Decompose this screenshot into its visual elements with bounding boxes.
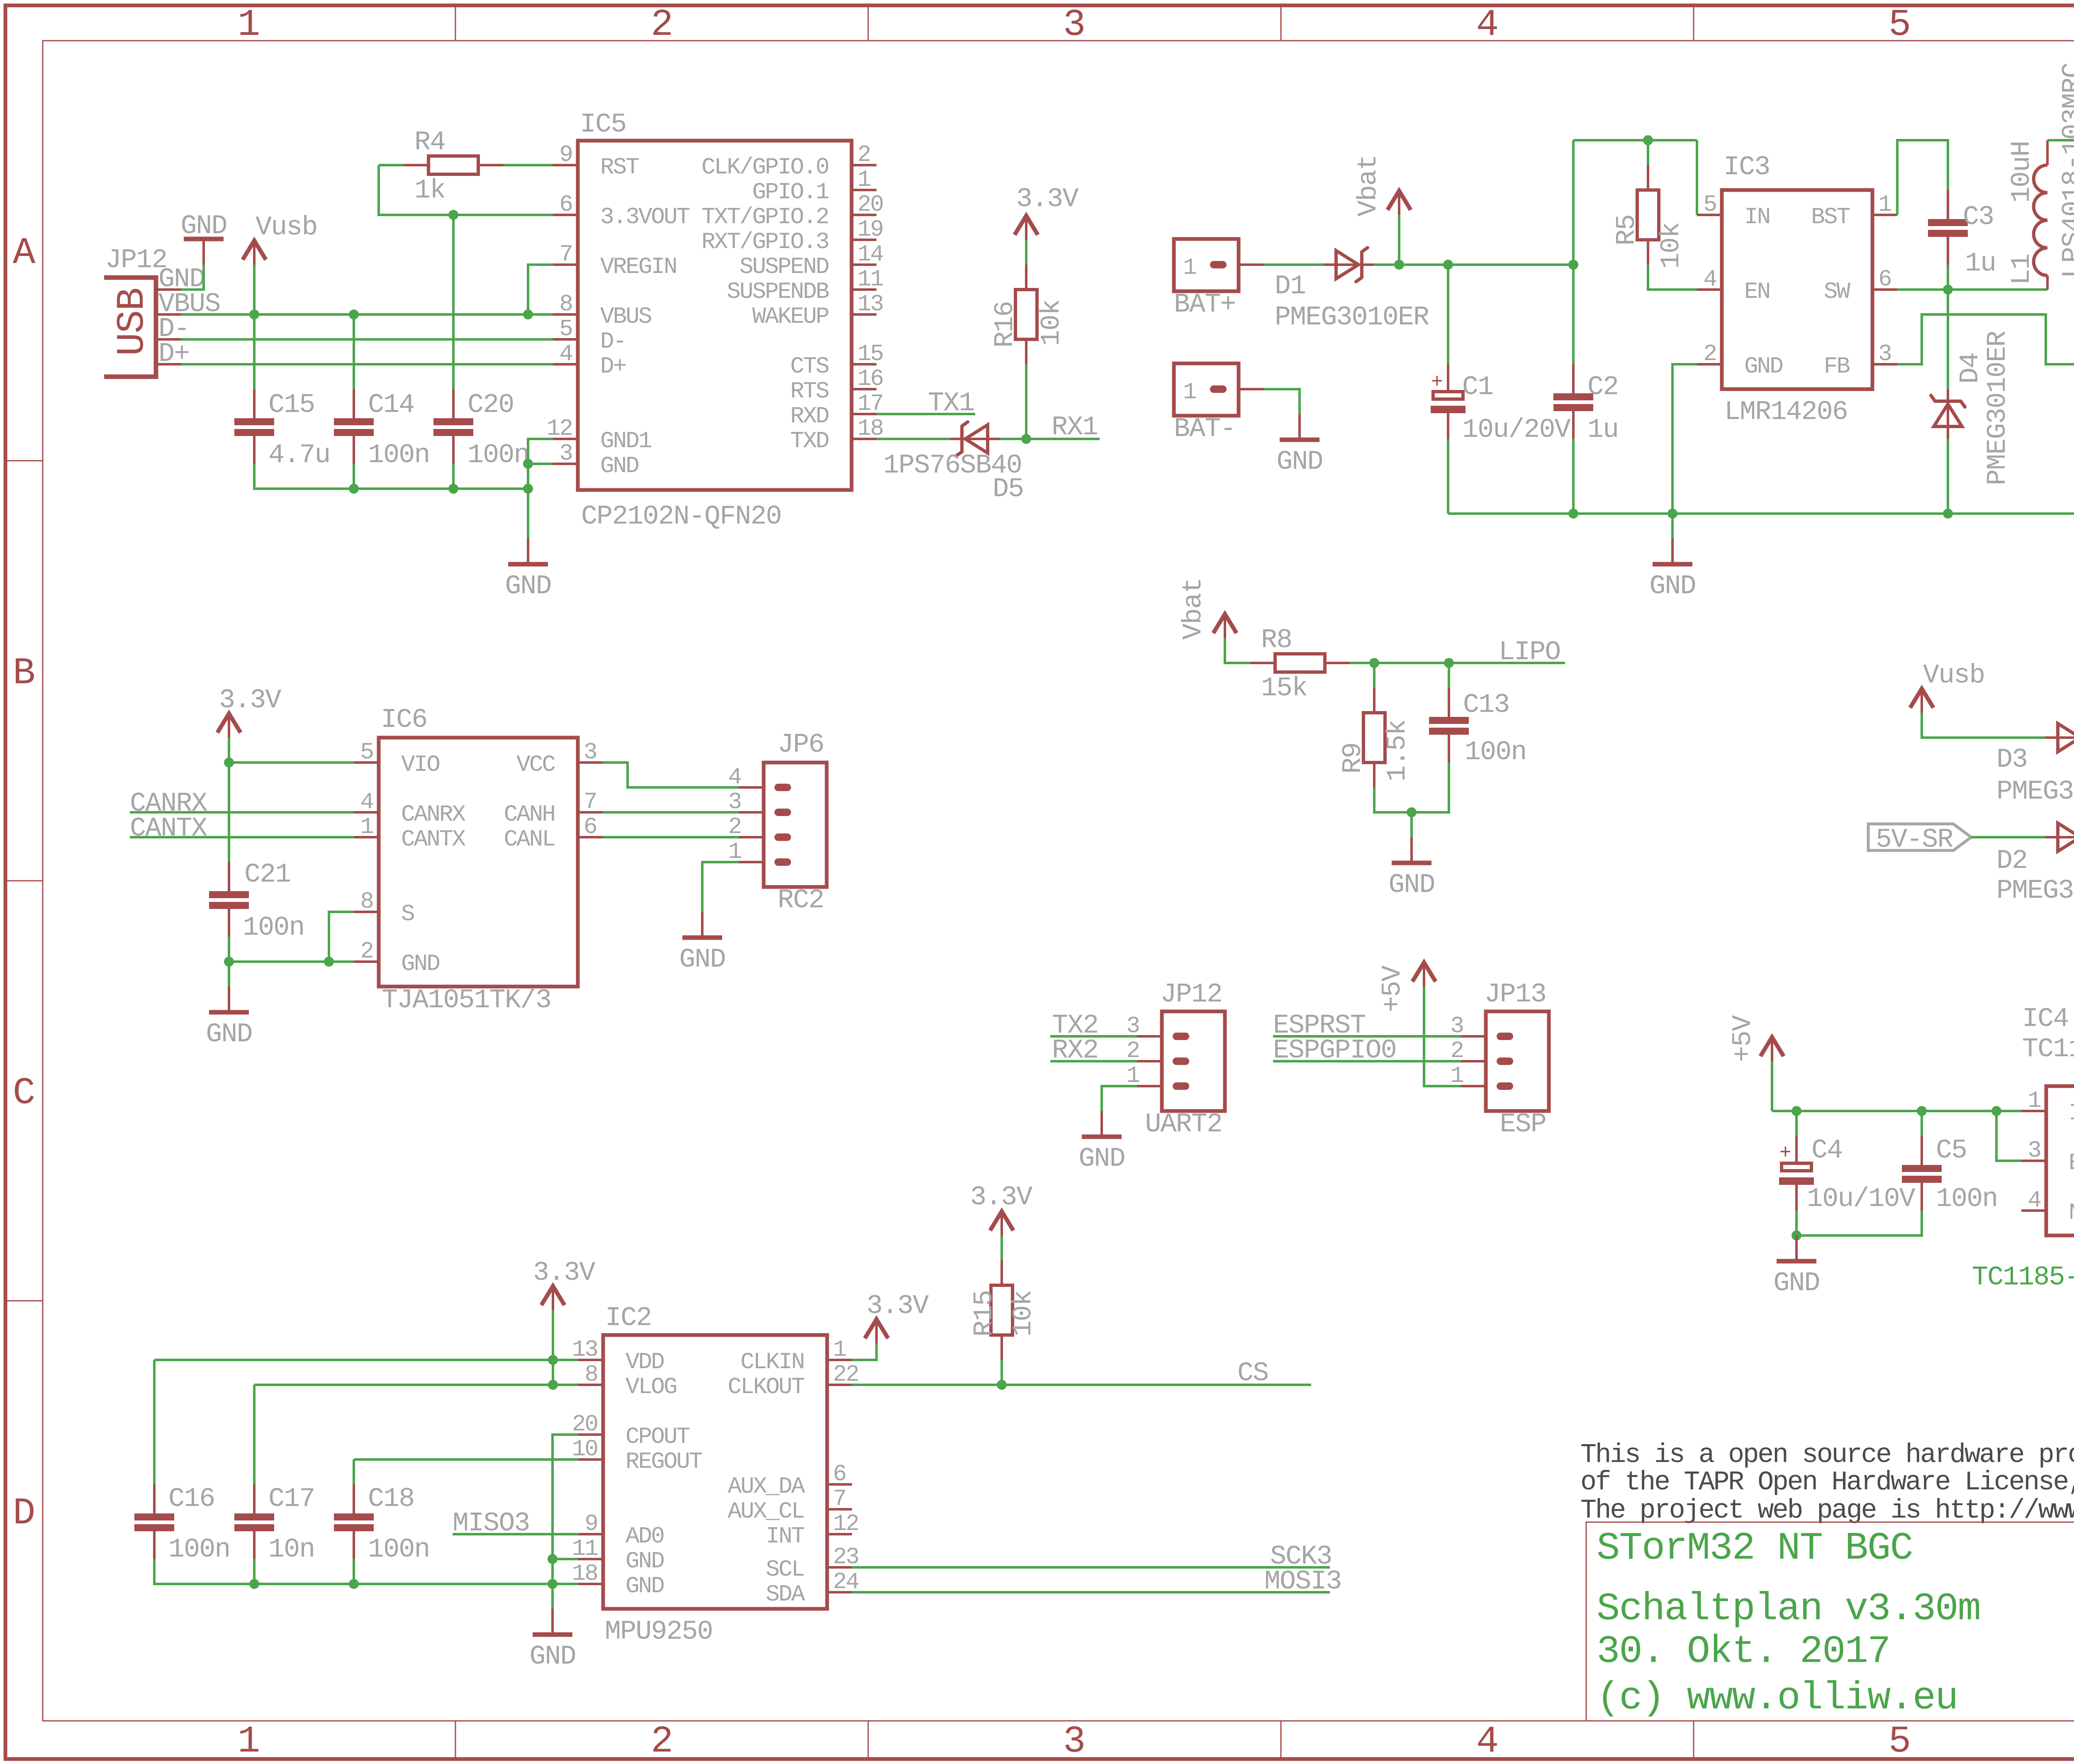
wire GND stem2 bbox=[1410, 812, 1413, 837]
svg-text:2: 2 bbox=[857, 141, 870, 168]
svg-text:TXT/GPIO.2: TXT/GPIO.2 bbox=[701, 204, 828, 230]
pin 8 VBUS of IC5 bbox=[553, 291, 651, 330]
svg-text:Schaltplan v3.30m: Schaltplan v3.30m bbox=[1597, 1587, 1980, 1631]
label D4 name bbox=[1955, 353, 1986, 384]
wire 3.3V vertical bbox=[552, 1310, 554, 1385]
wire C1 down bbox=[1447, 439, 1449, 514]
svg-text:CS: CS bbox=[1237, 1358, 1268, 1389]
svg-text:7: 7 bbox=[833, 1486, 846, 1512]
svg-text:1: 1 bbox=[360, 814, 373, 840]
svg-text:SUSPEND: SUSPEND bbox=[740, 253, 829, 280]
wire ESPRST bbox=[1273, 1035, 1461, 1038]
junction bbox=[1444, 658, 1454, 668]
pin 5 VIO of IC6 bbox=[354, 739, 439, 778]
wire R15 to CS bbox=[1000, 1360, 1003, 1385]
wire FB path bbox=[1897, 314, 2074, 364]
svg-text:1: 1 bbox=[857, 166, 870, 193]
connector JP13 ESP bbox=[1450, 979, 1549, 1140]
svg-text:CLKOUT: CLKOUT bbox=[728, 1374, 804, 1400]
svg-text:11: 11 bbox=[572, 1535, 598, 1562]
svg-text:This is a open source hardware: This is a open source hardware project, … bbox=[1580, 1440, 2074, 1470]
svg-text:Vbat: Vbat bbox=[1353, 155, 1384, 217]
wire VDD rail bbox=[154, 1359, 578, 1361]
wire BAT- to GND bbox=[1263, 389, 1300, 414]
ground bbox=[206, 987, 252, 1050]
wire GND stem bbox=[1671, 514, 1674, 538]
svg-text:CLKIN: CLKIN bbox=[740, 1349, 804, 1375]
svg-text:4: 4 bbox=[1703, 266, 1716, 292]
wire RST to R4 bbox=[503, 164, 553, 166]
svg-text:JP12: JP12 bbox=[1161, 979, 1222, 1010]
notes text bbox=[1580, 1440, 2074, 1526]
svg-text:The project web page is http:/: The project web page is http://www.olliw… bbox=[1580, 1495, 2074, 1526]
svg-text:2: 2 bbox=[651, 4, 674, 46]
pin 20 CPOUT of IC2 bbox=[572, 1411, 690, 1450]
capacitor C16 bbox=[134, 1484, 230, 1565]
supply 3.3V bbox=[970, 1182, 1032, 1235]
pin 3 VCC of IC6 bbox=[516, 739, 603, 778]
wire Vusb to D3 bbox=[1922, 713, 2045, 738]
svg-text:3: 3 bbox=[728, 789, 741, 815]
svg-text:SCL: SCL bbox=[766, 1556, 804, 1583]
svg-text:3.3V: 3.3V bbox=[219, 685, 281, 716]
svg-text:4: 4 bbox=[2028, 1187, 2040, 1213]
svg-text:3: 3 bbox=[1450, 1013, 1463, 1039]
svg-text:1u: 1u bbox=[1965, 248, 1996, 279]
svg-text:IC4: IC4 bbox=[2022, 1004, 2068, 1034]
svg-text:JP13: JP13 bbox=[1485, 979, 1546, 1010]
wire VCC to JP6 bbox=[603, 763, 739, 787]
wire C21 gnd stem bbox=[228, 962, 230, 987]
wire R4 to 3.3VOUT bbox=[379, 165, 553, 215]
svg-text:CPOUT: CPOUT bbox=[626, 1423, 689, 1450]
connector BAT+ bbox=[1174, 239, 1263, 320]
supply Vusb bbox=[1910, 660, 1984, 713]
svg-text:ESPGPIO0: ESPGPIO0 bbox=[1273, 1035, 1396, 1066]
pin 10 REGOUT of IC2 bbox=[572, 1436, 702, 1475]
svg-text:GND: GND bbox=[505, 571, 551, 602]
ground bbox=[1276, 414, 1322, 477]
svg-text:9: 9 bbox=[559, 141, 572, 168]
wire Vbat arrow stem bbox=[1398, 215, 1400, 265]
resistor R8 bbox=[1250, 625, 1350, 704]
pin 12 INT of IC2 bbox=[766, 1511, 858, 1550]
svg-text:VDD: VDD bbox=[626, 1349, 664, 1375]
capacitor C13 bbox=[1429, 688, 1526, 767]
svg-text:CP2102N-QFN20: CP2102N-QFN20 bbox=[581, 501, 781, 532]
pin 8 VLOG of IC2 bbox=[578, 1361, 677, 1400]
supply +5V bbox=[1728, 1015, 1784, 1062]
svg-text:3: 3 bbox=[1878, 341, 1891, 367]
svg-text:WAKEUP: WAKEUP bbox=[752, 303, 828, 330]
wire CLKIN bbox=[852, 1343, 876, 1360]
IC IC4 bbox=[2022, 1004, 2074, 1235]
svg-text:EN: EN bbox=[2069, 1150, 2074, 1176]
junction bbox=[1792, 1230, 1801, 1240]
svg-text:D3: D3 bbox=[1996, 744, 2027, 775]
svg-text:+: + bbox=[1431, 371, 1443, 394]
wire Vbat to R8 bbox=[1225, 638, 1250, 663]
capacitor C2 bbox=[1553, 364, 1618, 445]
pin 7 AUX_CL of IC2 bbox=[728, 1486, 852, 1525]
capacitor C14 bbox=[334, 389, 429, 470]
wire JP6 pin1 GND bbox=[702, 862, 739, 912]
wire VIO bbox=[229, 761, 354, 764]
svg-text:GND: GND bbox=[529, 1641, 575, 1672]
pin 20 TXT/GPIO.2 of IC5 bbox=[701, 191, 883, 230]
IC IC2 bbox=[603, 1303, 827, 1647]
junction bbox=[1407, 807, 1417, 817]
svg-text:4.7u: 4.7u bbox=[268, 440, 330, 470]
svg-text:10k: 10k bbox=[1036, 300, 1067, 346]
junction bbox=[548, 1554, 557, 1564]
svg-text:3: 3 bbox=[1063, 1720, 1086, 1763]
svg-text:GND: GND bbox=[206, 1019, 252, 1050]
junction bbox=[997, 1380, 1007, 1390]
wire CANH to JP6 bbox=[603, 811, 739, 814]
svg-text:4: 4 bbox=[728, 764, 741, 790]
label D5 value bbox=[883, 450, 1022, 481]
svg-text:GND: GND bbox=[1078, 1143, 1125, 1174]
net label CS bbox=[1237, 1358, 1268, 1389]
svg-text:TXD: TXD bbox=[790, 428, 828, 454]
svg-text:4: 4 bbox=[360, 789, 373, 815]
svg-text:18: 18 bbox=[572, 1560, 597, 1587]
wire ESPGPIO0 bbox=[1273, 1060, 1461, 1062]
svg-text:19: 19 bbox=[857, 216, 883, 243]
capacitor C15 bbox=[234, 389, 330, 470]
svg-text:ESP: ESP bbox=[1500, 1109, 1546, 1140]
svg-text:C18: C18 bbox=[368, 1484, 414, 1514]
svg-text:+5V: +5V bbox=[1377, 965, 1408, 1012]
junction bbox=[224, 758, 234, 767]
svg-text:BAT+: BAT+ bbox=[1174, 289, 1235, 320]
svg-text:GND: GND bbox=[1649, 571, 1695, 602]
svg-text:4: 4 bbox=[559, 341, 572, 367]
svg-text:100n: 100n bbox=[368, 1534, 429, 1565]
wire Vusb bbox=[253, 265, 256, 314]
pin 17 RXD of IC5 bbox=[790, 390, 883, 429]
wire VBUS to C14 bbox=[353, 314, 355, 389]
svg-text:CANRX: CANRX bbox=[401, 801, 465, 828]
label D3 name bbox=[1996, 744, 2027, 775]
svg-text:PMEG3010ER: PMEG3010ER bbox=[1275, 302, 1429, 333]
svg-text:GND: GND bbox=[600, 453, 638, 479]
svg-text:8: 8 bbox=[360, 888, 373, 915]
resistor R9 bbox=[1338, 688, 1413, 787]
svg-text:15: 15 bbox=[857, 341, 883, 367]
svg-text:REGOUT: REGOUT bbox=[626, 1448, 702, 1475]
svg-text:GND1: GND1 bbox=[600, 428, 651, 454]
svg-text:GND: GND bbox=[626, 1573, 664, 1599]
svg-text:D1: D1 bbox=[1275, 271, 1305, 302]
svg-text:UART2: UART2 bbox=[1145, 1109, 1222, 1140]
wire TXD to D5 bbox=[876, 438, 950, 440]
svg-text:PMEG3010ER: PMEG3010ER bbox=[1982, 331, 2013, 485]
svg-text:CANH: CANH bbox=[504, 801, 555, 828]
pin 18 TXD of IC5 bbox=[790, 415, 883, 454]
svg-text:RX1: RX1 bbox=[1052, 412, 1098, 443]
junction bbox=[1443, 260, 1453, 270]
svg-text:10uH: 10uH bbox=[2006, 141, 2037, 203]
IC IC3 bbox=[1722, 152, 1872, 427]
pin 5 D- of IC5 bbox=[553, 316, 626, 355]
svg-text:8: 8 bbox=[559, 291, 572, 317]
svg-text:20: 20 bbox=[857, 191, 883, 218]
svg-text:AD0: AD0 bbox=[626, 1523, 664, 1550]
diode D5 bbox=[950, 422, 1000, 456]
svg-text:TC1185-3.3VCT713: TC1185-3.3VCT713 bbox=[2022, 1034, 2074, 1065]
junction bbox=[1021, 434, 1031, 444]
svg-text:1: 1 bbox=[1183, 254, 1196, 281]
capacitor C20 bbox=[433, 389, 529, 470]
svg-text:3: 3 bbox=[2028, 1137, 2040, 1164]
wire 3.3VOUT to C20 bbox=[452, 215, 455, 389]
svg-text:VCC: VCC bbox=[516, 751, 555, 778]
svg-text:13: 13 bbox=[857, 291, 883, 317]
junction bbox=[349, 484, 359, 494]
wire +5V to IN bbox=[1771, 1061, 1773, 1111]
svg-text:RXD: RXD bbox=[790, 403, 828, 429]
pin 11 GND of IC2 bbox=[572, 1535, 664, 1574]
pin 6 CANL of IC6 bbox=[504, 814, 603, 853]
wire VLOG rail bbox=[254, 1384, 578, 1386]
svg-text:5: 5 bbox=[559, 316, 572, 342]
svg-text:IN: IN bbox=[2069, 1100, 2074, 1126]
svg-text:R16: R16 bbox=[990, 302, 1020, 348]
svg-text:5: 5 bbox=[1889, 4, 1911, 46]
svg-text:C20: C20 bbox=[467, 390, 514, 420]
svg-text:C2: C2 bbox=[1587, 372, 1618, 402]
svg-text:INT: INT bbox=[766, 1523, 804, 1550]
svg-text:IC2: IC2 bbox=[605, 1303, 651, 1333]
supply 3.3V bbox=[1015, 184, 1078, 240]
junction bbox=[548, 1579, 557, 1589]
junction bbox=[1991, 1106, 2001, 1116]
svg-text:2: 2 bbox=[1703, 341, 1716, 367]
svg-text:1: 1 bbox=[238, 4, 260, 46]
junction bbox=[1917, 1106, 1927, 1116]
svg-text:20: 20 bbox=[572, 1411, 598, 1438]
svg-text:100n: 100n bbox=[243, 912, 304, 943]
svg-text:3.3V: 3.3V bbox=[970, 1182, 1032, 1213]
svg-text:VIO: VIO bbox=[401, 751, 439, 778]
svg-text:SDA: SDA bbox=[766, 1581, 805, 1608]
svg-text:AUX_DA: AUX_DA bbox=[728, 1473, 805, 1500]
pin 6 SW of IC3 bbox=[1824, 266, 1897, 305]
wire TX1 bbox=[876, 413, 975, 415]
svg-text:7: 7 bbox=[584, 789, 596, 815]
junction bbox=[249, 309, 259, 319]
svg-text:D+: D+ bbox=[600, 353, 626, 380]
svg-text:10k: 10k bbox=[1656, 223, 1687, 269]
svg-text:IC6: IC6 bbox=[381, 704, 427, 735]
wire EN branch bbox=[1996, 1111, 2021, 1161]
svg-text:GND: GND bbox=[180, 211, 226, 241]
svg-text:4: 4 bbox=[1476, 1720, 1499, 1763]
wire BST to C3 bbox=[1897, 140, 1948, 215]
wire C18 top bbox=[353, 1459, 355, 1484]
svg-text:GND: GND bbox=[1276, 446, 1322, 477]
net label LIPO bbox=[1499, 637, 1560, 668]
svg-text:C4: C4 bbox=[1811, 1135, 1842, 1166]
wire C16 top bbox=[153, 1360, 156, 1484]
junction bbox=[448, 484, 458, 494]
wire C17 bottom bbox=[253, 1559, 256, 1584]
svg-text:BAT-: BAT- bbox=[1174, 414, 1235, 444]
svg-text:TX1: TX1 bbox=[928, 388, 974, 419]
wire 3.3V down to C21 bbox=[228, 763, 230, 862]
diode D4 bbox=[1931, 389, 1965, 439]
pin 2 GND of IC3 bbox=[1697, 341, 1782, 380]
svg-text:CTS: CTS bbox=[790, 353, 828, 380]
svg-text:1: 1 bbox=[1183, 379, 1196, 405]
svg-text:10u/20V: 10u/20V bbox=[1462, 414, 1571, 445]
svg-text:6: 6 bbox=[559, 191, 572, 218]
junction bbox=[1369, 658, 1379, 668]
pin 6 3.3VOUT of IC5 bbox=[553, 191, 690, 230]
svg-text:GND: GND bbox=[679, 944, 725, 975]
svg-text:R8: R8 bbox=[1261, 625, 1292, 655]
svg-text:10u/10V: 10u/10V bbox=[1807, 1184, 1916, 1214]
label TC1185 green bbox=[1972, 1262, 2074, 1293]
connector JP12 USB bbox=[104, 245, 220, 377]
wire C17 top bbox=[253, 1385, 256, 1484]
svg-text:Vbat: Vbat bbox=[1178, 578, 1209, 640]
svg-text:5: 5 bbox=[1889, 1720, 1911, 1763]
svg-text:9: 9 bbox=[584, 1511, 597, 1537]
junction bbox=[349, 309, 359, 319]
svg-text:GND: GND bbox=[1773, 1268, 1819, 1299]
net label TX2 bbox=[1052, 1010, 1098, 1041]
net label CANTX bbox=[130, 813, 207, 844]
label D1 value bbox=[1275, 302, 1429, 333]
ground bbox=[1649, 538, 1695, 602]
wire IC2 gnd stem bbox=[551, 1584, 554, 1609]
svg-text:3: 3 bbox=[584, 739, 596, 765]
svg-text:10k: 10k bbox=[1008, 1291, 1039, 1337]
pin 16 RTS of IC5 bbox=[790, 365, 883, 404]
wire CPOUT down bbox=[553, 1435, 578, 1584]
wire GND of USB bbox=[181, 265, 204, 290]
ground bbox=[505, 538, 551, 602]
pin 1 GPIO.1 of IC5 bbox=[752, 166, 876, 205]
svg-text:TJA1051TK/3: TJA1051TK/3 bbox=[382, 985, 551, 1016]
svg-text:1: 1 bbox=[2028, 1087, 2040, 1114]
svg-text:3.3V: 3.3V bbox=[867, 1291, 929, 1321]
label IC4 part bbox=[2022, 1034, 2074, 1065]
IC IC6 bbox=[379, 704, 578, 1016]
svg-text:MISO3: MISO3 bbox=[453, 1508, 530, 1539]
svg-text:C15: C15 bbox=[268, 390, 314, 420]
svg-text:1k: 1k bbox=[414, 175, 445, 206]
svg-text:5V-SR: 5V-SR bbox=[1876, 824, 1953, 855]
svg-text:A: A bbox=[13, 232, 36, 275]
net label RX2 bbox=[1052, 1035, 1098, 1066]
wire C13 top bbox=[1448, 663, 1450, 688]
wire 3.3V to VIO bbox=[228, 738, 230, 763]
wire C21 down bbox=[228, 937, 230, 962]
net label MISO3 bbox=[453, 1508, 530, 1539]
svg-text:VLOG: VLOG bbox=[626, 1374, 677, 1400]
supply 3.3V bbox=[865, 1291, 929, 1343]
svg-text:BST: BST bbox=[1811, 204, 1850, 230]
capacitor C1 bbox=[1431, 364, 1571, 445]
svg-text:GPIO.1: GPIO.1 bbox=[752, 179, 828, 205]
svg-text:LIPO: LIPO bbox=[1499, 637, 1560, 668]
ground bbox=[180, 211, 226, 265]
label D4 value bbox=[1982, 331, 2013, 485]
wire VBUS net bbox=[181, 313, 553, 316]
svg-text:MOSI3: MOSI3 bbox=[1264, 1566, 1341, 1597]
svg-text:JP12: JP12 bbox=[105, 245, 167, 275]
svg-text:1: 1 bbox=[1450, 1062, 1463, 1089]
supply +5V bbox=[1377, 962, 1436, 1012]
wire R16 to RX1 bbox=[1025, 364, 1027, 439]
resistor R4 bbox=[404, 127, 503, 206]
svg-text:C: C bbox=[13, 1072, 36, 1115]
pin 7 CANH of IC6 bbox=[504, 789, 603, 828]
svg-text:D2: D2 bbox=[1996, 845, 2027, 876]
svg-text:100n: 100n bbox=[467, 440, 529, 470]
svg-text:C16: C16 bbox=[168, 1484, 214, 1514]
wire GND pin3 bbox=[528, 463, 553, 465]
svg-text:5: 5 bbox=[1703, 191, 1716, 218]
capacitor C17 bbox=[234, 1484, 314, 1565]
wire D4 down bbox=[1947, 439, 1949, 514]
svg-text:1: 1 bbox=[1878, 191, 1891, 218]
svg-text:NC: NC bbox=[2069, 1199, 2074, 1226]
junction bbox=[1394, 260, 1404, 270]
wire CANTX bbox=[130, 836, 354, 838]
svg-text:PMEG3010ER: PMEG3010ER bbox=[1996, 875, 2074, 906]
svg-text:PMEG3010ER: PMEG3010ER bbox=[1996, 776, 2074, 807]
svg-text:GND: GND bbox=[1388, 870, 1434, 900]
resistor R16 bbox=[990, 265, 1067, 364]
wire C4 top bbox=[1795, 1111, 1798, 1136]
wire 3.3V to R15 bbox=[1000, 1235, 1003, 1260]
pin 2 CLK/GPIO.0 of IC5 bbox=[701, 141, 876, 180]
svg-text:+: + bbox=[1779, 1142, 1792, 1165]
wire +5V to JP13 pin1 bbox=[1424, 987, 1461, 1086]
wire SCK3 bbox=[852, 1566, 1330, 1569]
wire GND row bbox=[229, 960, 354, 963]
wire C2 down bbox=[1572, 439, 1575, 514]
pin 4 D+ of IC5 bbox=[553, 341, 626, 380]
svg-text:R15: R15 bbox=[969, 1291, 1000, 1337]
svg-text:100n: 100n bbox=[1465, 737, 1526, 767]
svg-text:10: 10 bbox=[572, 1436, 598, 1462]
junction bbox=[1568, 509, 1578, 519]
wire Vbat up to IN bus bbox=[1573, 140, 1697, 265]
pin 23 SCL of IC2 bbox=[766, 1544, 858, 1583]
wire 3.3V to R16 bbox=[1025, 240, 1027, 265]
wire Vbat to C2 bbox=[1572, 265, 1575, 364]
title text project bbox=[1597, 1527, 1980, 1720]
pin 1 BST of IC3 bbox=[1811, 191, 1897, 230]
label D2 value bbox=[1996, 875, 2074, 906]
wire CANL to JP6 bbox=[603, 836, 739, 838]
pin 4 NC of IC4 bbox=[2021, 1187, 2074, 1226]
ground bbox=[1078, 1111, 1125, 1174]
label D2 name bbox=[1996, 845, 2027, 876]
pin 24 SDA of IC2 bbox=[766, 1569, 858, 1608]
pin 1 CLKIN of IC2 bbox=[740, 1336, 852, 1375]
svg-text:AUX_CL: AUX_CL bbox=[728, 1498, 804, 1525]
pin 7 VREGIN of IC5 bbox=[553, 241, 677, 280]
svg-text:JP6: JP6 bbox=[778, 729, 824, 760]
svg-text:EN: EN bbox=[1744, 278, 1770, 305]
